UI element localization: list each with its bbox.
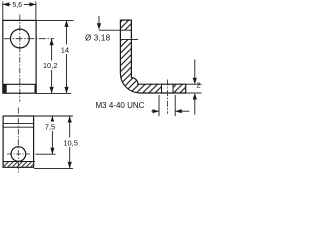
dimension 7,5 top arrowhead <box>50 116 54 123</box>
dimension 5,6 text <box>11 1 24 9</box>
dimension 14 top extension line <box>36 19 73 21</box>
dimension 5,6 right extension line <box>35 2 37 21</box>
dimension 14 line <box>66 20 68 93</box>
dimension 2 bottom extension line <box>186 92 202 94</box>
front view vertical centerline <box>19 15 21 102</box>
svg-text:7,5: 7,5 <box>45 123 55 132</box>
svg-text:Ø 3,18: Ø 3,18 <box>85 33 111 42</box>
side view L-profile outline <box>120 20 185 93</box>
side view sectioned L-profile hatch fill <box>120 20 185 93</box>
dimensions 10,2 and 14 bottom extension line <box>36 92 71 94</box>
front view foot band right solid sliver <box>35 84 37 93</box>
front view horizontal centerline / extension to 10,2 <box>4 38 54 40</box>
dimension 10,5 line <box>69 116 71 168</box>
thread dimension right extension line <box>174 95 176 116</box>
svg-text:10,5: 10,5 <box>63 139 78 148</box>
bottom view threaded hole circle <box>11 147 26 162</box>
dimension 2 top extension line <box>186 83 202 85</box>
side view leg hole white gap <box>121 31 131 39</box>
bottom view sectioned edge band <box>4 162 33 167</box>
side view foot hole left edge <box>161 84 163 93</box>
svg-text:14: 14 <box>61 46 69 55</box>
svg-text:2: 2 <box>196 81 200 90</box>
dimension 14 text <box>59 45 72 55</box>
dimension 2 upper arrow <box>194 60 196 79</box>
bottom view outline <box>3 116 33 167</box>
diameter leader vertical with down arrowhead <box>98 16 100 24</box>
svg-text:5,6: 5,6 <box>12 2 22 9</box>
bottom view top extension line <box>34 115 73 117</box>
dimension 10,2 line <box>51 39 53 94</box>
bottom view vertical centerline <box>17 108 19 173</box>
side view foot hole right edge <box>172 84 174 93</box>
dimension 5,6 right arrowhead <box>29 2 36 6</box>
dimension 2 lower arrow <box>194 99 196 115</box>
front view foot band left solid sliver <box>3 84 7 93</box>
side view leg hole top edge with leader to diameter label <box>99 29 131 31</box>
dimension 7,5 bottom arrowhead <box>50 148 54 155</box>
svg-text:10,2: 10,2 <box>43 61 58 70</box>
dimension 7,5 text <box>43 122 57 132</box>
dimension 10,5 bottom arrowhead <box>68 162 72 169</box>
dimension 14 bottom arrowhead <box>64 87 68 94</box>
dimension 7,5 hole-center extension line <box>36 153 56 155</box>
dimension 10,2 bottom arrowhead <box>50 87 54 94</box>
front view hole circle <box>11 29 30 48</box>
front view outline <box>3 20 36 93</box>
bottom view bend tangent line 1 <box>3 122 33 124</box>
dimension 5,6 line <box>3 3 36 5</box>
dimension 5,6 left extension line <box>2 2 4 21</box>
bottom view hole horizontal centerline <box>7 153 30 155</box>
side view foot hole white gap <box>162 85 173 93</box>
dimension 14 top arrowhead <box>64 20 68 27</box>
dimension 10,2 text <box>43 61 59 71</box>
bottom view bend tangent line 2 <box>3 126 33 128</box>
front view foot band top edge <box>3 83 36 85</box>
svg-text:M3 4-40 UNC: M3 4-40 UNC <box>96 101 145 110</box>
dimension 10,5 bottom extension line <box>34 167 73 169</box>
dimension 10,5 top arrowhead <box>68 116 72 123</box>
side view leg hole bottom edge <box>120 38 138 40</box>
side view foot hole centerline <box>166 80 168 114</box>
dimension 10,2 top arrowhead <box>50 39 54 46</box>
dimension 5,6 left arrowhead <box>3 2 10 6</box>
thread dimension left extension line <box>158 95 160 116</box>
dimension 7,5 line <box>51 116 53 154</box>
thread dimension right arrow <box>175 110 189 112</box>
thread dimension left arrow <box>152 110 160 112</box>
dimension 10,5 text <box>63 138 80 148</box>
